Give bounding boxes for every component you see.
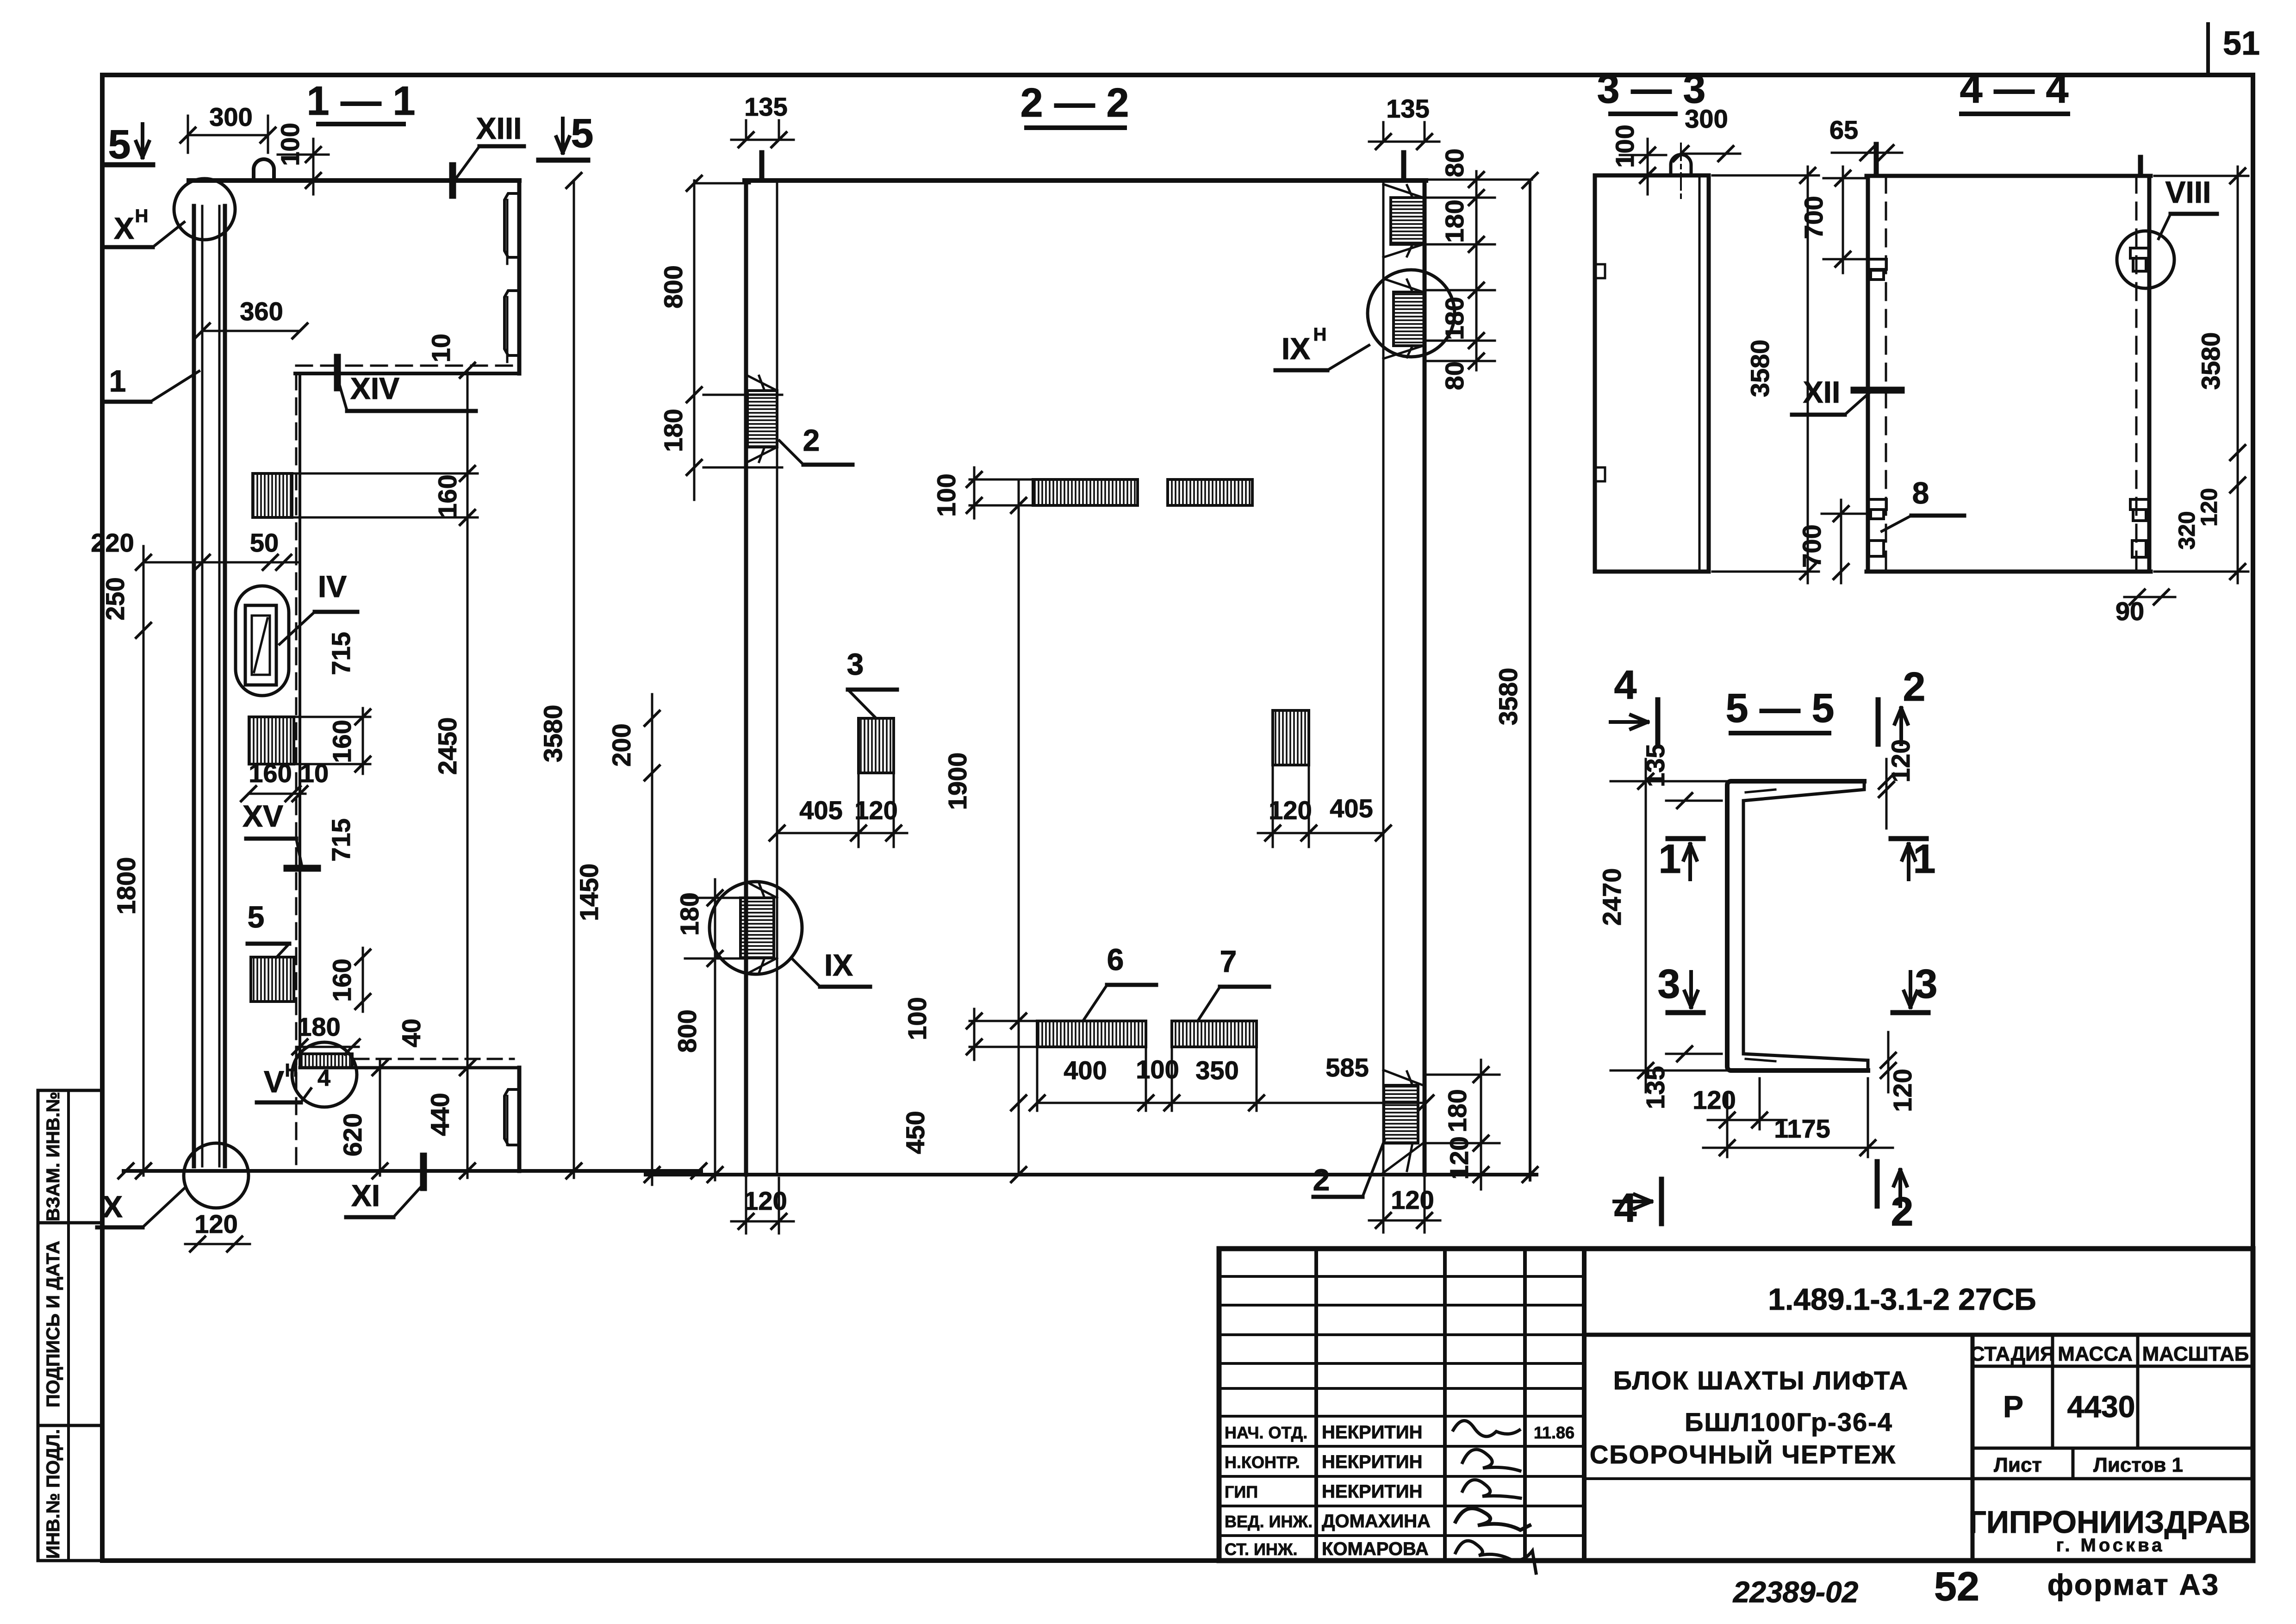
dim line 120 bottom 5-5	[1708, 1119, 1786, 1121]
title block line under doc number	[1584, 1333, 2253, 1337]
dim line 700 upper	[1842, 167, 1844, 273]
label 2 bottom leader	[1363, 1139, 1385, 1197]
section title 2-2 underline	[1027, 125, 1125, 130]
dim ext block2 top	[294, 716, 370, 718]
svg-text:ВЕД. ИНЖ.: ВЕД. ИНЖ.	[1225, 1512, 1313, 1531]
page frame top border	[102, 73, 2253, 77]
label 7 leader	[1198, 987, 1220, 1021]
dim ext 3-3 bottom	[1712, 571, 1819, 573]
dim ext 100 3-3	[1620, 154, 1666, 156]
slab keyway profile upper	[504, 193, 519, 257]
svg-text:5: 5	[108, 121, 131, 167]
mark 2 bottom bar	[1875, 1162, 1880, 1206]
dim ext 135 bottom	[1666, 1053, 1722, 1055]
svg-text:г. Москва: г. Москва	[2056, 1535, 2165, 1556]
svg-text:СБОРОЧНЫЙ ЧЕРТЕЖ: СБОРОЧНЫЙ ЧЕРТЕЖ	[1590, 1440, 1896, 1469]
svg-text:1175: 1175	[1774, 1114, 1830, 1143]
dim ext 1175 right	[1867, 1078, 1869, 1157]
view 4-4 bottom edge	[1867, 570, 2151, 574]
detail label VIII leader	[2159, 214, 2171, 239]
svg-text:1: 1	[1659, 836, 1681, 882]
section title 5-5 underline	[1731, 731, 1829, 735]
tick bottom left end	[118, 1164, 133, 1178]
floor strip upper right hatched	[1168, 479, 1252, 505]
label 1 leader	[150, 371, 199, 402]
svg-text:22389-02: 22389-02	[1733, 1575, 1858, 1609]
dim line 800-180 left	[693, 180, 696, 500]
dim line 100 mid	[973, 467, 976, 518]
title block mid divider	[1971, 1335, 1975, 1561]
signature 3	[1462, 1480, 1520, 1498]
svg-text:X: X	[102, 1189, 123, 1224]
left wall wedge IX top	[746, 882, 777, 898]
slab right edge lower	[517, 1068, 522, 1171]
svg-text:3: 3	[1915, 961, 1938, 1007]
bottom hidden line	[355, 1058, 514, 1060]
svg-text:1800: 1800	[112, 857, 141, 915]
svg-text:200: 200	[607, 723, 636, 766]
detail label X underline	[97, 1226, 143, 1230]
detail label XIII underline	[479, 144, 524, 149]
svg-text:120: 120	[1692, 1085, 1736, 1114]
dim ext spacer left 2	[893, 773, 895, 847]
tick 1800 bottom	[136, 1164, 151, 1178]
detail label XIII leader	[454, 146, 479, 180]
dim line 3580 4-4	[2237, 167, 2239, 583]
svg-text:160: 160	[327, 720, 356, 763]
dim line 3580 view1	[573, 180, 575, 1178]
slab keyway inner line lower	[506, 297, 509, 362]
label 1 underline	[106, 400, 150, 404]
svg-text:2450: 2450	[433, 717, 462, 775]
detail IV oval	[236, 586, 289, 696]
title block row line 7	[1219, 1445, 1584, 1448]
section title 3-3 underline	[1611, 112, 1675, 116]
detail IV insert diagonal	[254, 618, 268, 672]
dim ext left mid	[703, 394, 782, 396]
svg-text:3580: 3580	[1493, 668, 1523, 726]
label 7 underline	[1220, 985, 1269, 989]
stamp box PODPIS I DATA	[38, 1223, 102, 1425]
svg-text:БШЛ100Гр-36-4: БШЛ100Гр-36-4	[1685, 1407, 1893, 1437]
view 4-4 left wall line	[1866, 176, 1870, 572]
mark 3 right arrow	[1904, 972, 1917, 1007]
anchor block 2 hatched	[249, 717, 294, 764]
dim line 135 left	[731, 139, 794, 141]
dim line 100 3-3	[1647, 139, 1649, 194]
svg-text:10: 10	[426, 334, 455, 362]
svg-text:3580: 3580	[1745, 340, 1774, 398]
left wall clamp 1b	[1871, 270, 1884, 280]
svg-text:БЛОК ШАХТЫ ЛИФТА: БЛОК ШАХТЫ ЛИФТА	[1613, 1366, 1909, 1395]
detail label XV leader	[296, 839, 302, 865]
dim line 120 wall	[185, 1243, 250, 1245]
svg-text:120: 120	[1886, 739, 1915, 782]
dim ext 120 bottom	[1759, 1078, 1761, 1129]
svg-text:XIII: XIII	[476, 111, 522, 145]
svg-text:2: 2	[1903, 664, 1926, 709]
svg-text:XIV: XIV	[350, 371, 399, 405]
svg-text:Н: Н	[285, 1060, 299, 1081]
svg-text:180: 180	[675, 892, 704, 935]
svg-text:XII: XII	[1803, 375, 1841, 409]
detail label IV leader	[280, 612, 315, 644]
svg-text:160: 160	[327, 958, 356, 1002]
mark 1 left bar	[1668, 836, 1703, 841]
svg-text:90: 90	[2116, 597, 2144, 626]
detail label VIII underline	[2171, 212, 2217, 216]
dim line 2470	[1645, 759, 1647, 1092]
detail label XIV underline	[347, 409, 476, 413]
detail XII tick	[1854, 387, 1901, 394]
title block row line 5	[1219, 1387, 1584, 1390]
label 5 leader	[277, 944, 289, 957]
detail label IX-H underline	[1276, 368, 1327, 373]
svg-text:IV: IV	[318, 569, 347, 604]
slab keyway profile lower	[504, 291, 519, 355]
page frame bottom border	[102, 1558, 2253, 1563]
svg-text:Н: Н	[135, 206, 149, 226]
dim ext 3-3 top	[1712, 174, 1819, 177]
mark 4 bottom bar	[1659, 1179, 1664, 1224]
right wall clamp 2b	[2133, 510, 2146, 521]
svg-text:51: 51	[2223, 25, 2260, 62]
svg-text:1: 1	[1913, 836, 1936, 882]
view 3-3 hook lower	[1595, 467, 1605, 481]
svg-text:120: 120	[1269, 796, 1312, 825]
dim ext block1 bottom	[292, 516, 478, 519]
right wall bottom joint block hatched	[1384, 1085, 1418, 1143]
svg-text:ГИП: ГИП	[1225, 1482, 1258, 1501]
title block col line 4	[1582, 1249, 1587, 1561]
dim ext 4-4 top	[2154, 175, 2248, 177]
wall inner left line	[201, 206, 204, 1166]
dim line 100 lower	[973, 1009, 976, 1060]
svg-text:КОМАРОВА: КОМАРОВА	[1322, 1539, 1429, 1559]
right wall clamp 2a	[2130, 499, 2149, 510]
lifting loop	[254, 159, 274, 180]
svg-text:4 — 4: 4 — 4	[1960, 66, 2069, 112]
section title 4-4 underline	[1961, 112, 2068, 116]
anchor block 1 hatched	[253, 473, 292, 517]
list/listov divider	[2072, 1448, 2075, 1479]
left wall outer line	[744, 180, 748, 1175]
svg-text:135: 135	[744, 92, 787, 121]
detail label V-H underline	[257, 1101, 301, 1105]
label 3 underline	[848, 688, 897, 692]
svg-text:135: 135	[1641, 1066, 1670, 1109]
left wall joint block IX hatched	[740, 898, 774, 958]
svg-text:Лист: Лист	[1994, 1454, 2042, 1476]
sheet number box divider	[2206, 24, 2210, 75]
stamp box VZAM INV	[38, 1090, 102, 1223]
dim ext 400 left	[1036, 1047, 1039, 1111]
dim ext 4-4 bottom	[2154, 571, 2248, 573]
dim line 120 bottom right	[1369, 1220, 1440, 1222]
svg-text:40: 40	[397, 1019, 426, 1047]
svg-text:1900: 1900	[943, 753, 972, 810]
label 3 leader	[848, 690, 876, 718]
mark 2 bottom arrow	[1894, 1170, 1907, 1206]
massa/masshtab divider	[2136, 1335, 2140, 1448]
label 2 leader	[779, 441, 803, 465]
dim line 400-100-350-585	[1037, 1102, 1426, 1104]
title block col line 3	[1523, 1249, 1527, 1561]
svg-text:X: X	[114, 211, 134, 245]
dim ext left top	[694, 182, 750, 185]
svg-text:220: 220	[91, 528, 134, 557]
dim line 120-405 right	[1258, 832, 1383, 834]
detail IV insert outer rect	[245, 605, 276, 685]
title block row line 10	[1219, 1534, 1584, 1537]
floor strip lower right hatched	[1172, 1021, 1257, 1047]
detail XIII tick	[449, 166, 456, 195]
detail circle IX-H	[1368, 270, 1455, 357]
spacer block right hatched	[1273, 710, 1309, 765]
detail label XII leader	[1845, 392, 1870, 415]
mark 1 right arrow	[1902, 844, 1915, 879]
detail XV tick	[287, 865, 317, 872]
detail XI tick	[420, 1156, 427, 1188]
section title 1-1 underline	[318, 122, 404, 126]
dim line 1175	[1703, 1147, 1893, 1149]
svg-text:620: 620	[338, 1113, 367, 1156]
slab right edge upper	[517, 180, 522, 373]
signature 4	[1456, 1508, 1530, 1530]
view 3-3 lifting loop	[1671, 155, 1691, 175]
svg-text:11.86: 11.86	[1534, 1423, 1574, 1442]
svg-text:НАЧ. ОТД.: НАЧ. ОТД.	[1225, 1423, 1307, 1442]
dim line 200-1450	[651, 694, 653, 1185]
dim line 180 strip	[296, 1046, 359, 1048]
signature 2	[1462, 1450, 1520, 1471]
tick dim 10 slab	[460, 363, 475, 378]
dim ext 400 right	[1145, 1047, 1147, 1111]
dim ext 350 left	[1171, 1047, 1173, 1111]
svg-text:360: 360	[240, 297, 283, 326]
view 2-2 bottom edge	[646, 1173, 1537, 1176]
svg-text:2470: 2470	[1597, 868, 1626, 926]
svg-text:2: 2	[803, 423, 820, 457]
floor strip upper left hatched	[1033, 479, 1138, 505]
spacer block left hatched	[859, 718, 894, 773]
dim ext block1 top	[292, 473, 478, 475]
svg-text:3580: 3580	[538, 705, 567, 763]
svg-text:300: 300	[209, 102, 252, 131]
svg-text:1: 1	[109, 364, 126, 398]
dim ext 300 left	[187, 116, 189, 153]
dim line 620	[379, 1060, 381, 1176]
line under stadia header	[1972, 1365, 2253, 1368]
bottom bearing strip hatched	[300, 1054, 352, 1068]
svg-text:4: 4	[1614, 662, 1637, 708]
slab keyway profile bottom	[504, 1089, 519, 1145]
svg-text:ИНВ.№ ПОДЛ.: ИНВ.№ ПОДЛ.	[43, 1429, 63, 1559]
detail circle V-H	[292, 1042, 357, 1107]
svg-text:4: 4	[317, 1065, 330, 1091]
svg-text:Р: Р	[2003, 1389, 2023, 1424]
label 8 underline	[1911, 514, 1964, 518]
left wall wedge upper	[746, 375, 777, 391]
detail label XV underline	[246, 837, 296, 841]
svg-text:Н: Н	[1313, 324, 1327, 345]
right wall bottom wedge top	[1383, 1070, 1423, 1085]
dim line 300 3-3	[1681, 153, 1740, 155]
svg-text:МАСШТАБ: МАСШТАБ	[2142, 1343, 2249, 1365]
svg-text:100: 100	[1610, 124, 1639, 168]
line under list row	[1972, 1477, 2253, 1481]
svg-text:Н.КОНТР.: Н.КОНТР.	[1225, 1453, 1300, 1472]
mark 1 left arrow	[1684, 844, 1697, 879]
svg-text:700: 700	[1799, 196, 1828, 239]
dim ext 1175 left	[1726, 1092, 1729, 1157]
right wall outer line	[1423, 180, 1427, 1175]
dim ext 350 right	[1256, 1047, 1258, 1111]
dim line 160 block2	[362, 708, 364, 774]
right wall clamp 3	[2132, 541, 2146, 557]
dim line 180 IX	[714, 879, 716, 1180]
dim ext strip bottom	[970, 504, 1034, 507]
svg-text:5: 5	[248, 900, 265, 934]
dim line 100 top	[312, 139, 315, 194]
svg-text:7: 7	[1220, 944, 1237, 978]
wall face line right part	[299, 373, 301, 1068]
detail label XIV leader	[339, 384, 347, 411]
line under description box	[1584, 1477, 1972, 1480]
svg-text:300: 300	[1685, 104, 1728, 133]
dim ext 300 right	[267, 116, 269, 153]
dim ext strip top	[970, 479, 1034, 481]
view 2-2 top edge	[745, 178, 1426, 183]
left wall wedge lower	[746, 447, 777, 463]
title block row line 1	[1219, 1275, 1584, 1278]
detail circle X bottom	[184, 1143, 249, 1208]
detail label XII underline	[1792, 413, 1845, 417]
svg-text:120: 120	[2196, 488, 2222, 526]
svg-text:2 — 2: 2 — 2	[1020, 80, 1129, 125]
line above list row	[1972, 1447, 2253, 1450]
svg-text:6: 6	[1107, 942, 1124, 977]
svg-text:800: 800	[659, 265, 688, 308]
right wall inner line	[1382, 180, 1385, 1175]
left wall wedge IX bottom	[746, 958, 777, 974]
dim line 90	[2124, 596, 2175, 598]
detail XIV tick	[334, 357, 341, 388]
right wall rebar stub	[1401, 153, 1406, 180]
svg-text:формат А3: формат А3	[2047, 1568, 2220, 1601]
dim ext spacer right 1	[1272, 765, 1274, 847]
detail label X leader	[143, 1188, 185, 1227]
view 4-4 left wall hidden line	[1885, 176, 1887, 572]
mark 1 right bar	[1891, 836, 1926, 841]
detail label V-H leader	[301, 1089, 311, 1102]
view 3-3 panel outline	[1595, 175, 1709, 572]
wall outer left line	[192, 206, 196, 1166]
floor strip lower left hatched	[1037, 1021, 1146, 1047]
detail label X-H leader	[153, 222, 184, 247]
title block row line 8	[1219, 1475, 1584, 1478]
wall hidden line vertical	[295, 373, 298, 1166]
dim line 300	[188, 134, 268, 137]
right wall clamp 1b	[2133, 258, 2146, 271]
label 6 underline	[1107, 983, 1156, 987]
svg-text:405: 405	[1330, 794, 1373, 823]
svg-text:160: 160	[249, 759, 292, 788]
dim ext 135 top	[1666, 800, 1722, 802]
mark 3 left arrow	[1685, 972, 1698, 1007]
svg-text:4430: 4430	[2067, 1389, 2135, 1424]
dim line 360	[202, 330, 300, 332]
svg-text:700: 700	[1797, 524, 1826, 567]
left wall inner line	[776, 180, 778, 1175]
mark 4 top arrow	[1611, 715, 1648, 729]
label 2 bottom underline	[1313, 1195, 1363, 1199]
svg-text:XI: XI	[351, 1178, 380, 1213]
svg-text:135: 135	[1641, 744, 1670, 787]
left wall rebar stub	[759, 153, 765, 180]
section mark 5 top-right bar	[539, 158, 588, 163]
bottom bearing line	[300, 1066, 519, 1070]
svg-text:ПОДПИСЬ И ДАТА: ПОДПИСЬ И ДАТА	[43, 1241, 63, 1407]
svg-text:3: 3	[1658, 961, 1680, 1007]
dim ext spacer left 1	[858, 773, 860, 847]
right wall wedge 2	[1383, 244, 1423, 257]
svg-text:120: 120	[854, 796, 897, 825]
svg-text:715: 715	[326, 818, 355, 861]
svg-text:120: 120	[194, 1209, 237, 1238]
slab bottom hidden line	[296, 365, 516, 367]
channel inner contour	[1743, 781, 1868, 1070]
svg-text:180: 180	[297, 1012, 340, 1041]
dim ext spacer right 2	[1308, 765, 1310, 847]
svg-text:180: 180	[659, 409, 688, 452]
dim line 120 bottom 5-5	[1887, 1032, 1890, 1092]
stamp box inner divider	[67, 1090, 70, 1561]
svg-text:65: 65	[1829, 115, 1858, 144]
dim line 405-120 left	[777, 832, 907, 834]
view 4-4 top edge	[1867, 174, 2151, 178]
slab keyway inner line upper	[506, 200, 509, 264]
section mark 5 top-left bar	[106, 162, 153, 168]
svg-text:180: 180	[1440, 199, 1469, 243]
dim line 120 bottom left	[731, 1220, 794, 1223]
detail IV insert inner rect	[252, 616, 270, 675]
svg-text:5 — 5: 5 — 5	[1726, 685, 1835, 731]
page frame right border	[2251, 75, 2255, 1561]
label 6 leader	[1083, 985, 1107, 1021]
svg-text:80: 80	[1440, 149, 1469, 177]
svg-text:V: V	[264, 1064, 284, 1099]
svg-text:120: 120	[1444, 1136, 1474, 1179]
stadia/massa divider	[2051, 1335, 2054, 1448]
svg-text:120: 120	[1888, 1069, 1917, 1112]
svg-text:НЕКРИТИН: НЕКРИТИН	[1322, 1481, 1422, 1502]
signature 5	[1456, 1541, 1536, 1573]
svg-text:1450: 1450	[574, 864, 604, 921]
tick 40 top	[460, 1060, 475, 1075]
svg-text:52: 52	[1934, 1563, 1979, 1609]
svg-text:СТ. ИНЖ.: СТ. ИНЖ.	[1225, 1540, 1297, 1559]
detail label IV underline	[315, 610, 357, 614]
title block col line 2	[1443, 1249, 1447, 1561]
dim line 250-1800	[143, 546, 145, 1176]
svg-text:405: 405	[799, 796, 842, 825]
tick 440 bottom	[460, 1164, 475, 1178]
dim line 80-180 right	[1475, 171, 1478, 370]
dim line 3580 view2	[1529, 180, 1531, 1180]
svg-text:Листов 1: Листов 1	[2093, 1454, 2183, 1476]
svg-text:50: 50	[250, 528, 279, 557]
